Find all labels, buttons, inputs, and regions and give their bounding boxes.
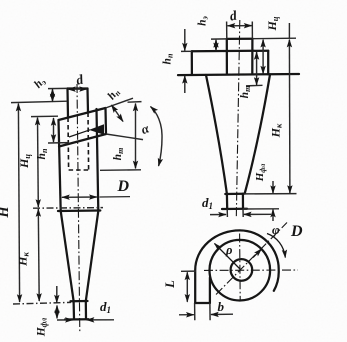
- svg-text:D: D: [117, 178, 130, 195]
- svg-text:φ: φ: [272, 222, 280, 237]
- svg-text:D: D: [290, 223, 303, 240]
- svg-text:b: b: [218, 299, 225, 314]
- svg-text:L: L: [163, 280, 177, 289]
- svg-text:ρ: ρ: [225, 243, 233, 257]
- svg-text:H: H: [0, 206, 12, 219]
